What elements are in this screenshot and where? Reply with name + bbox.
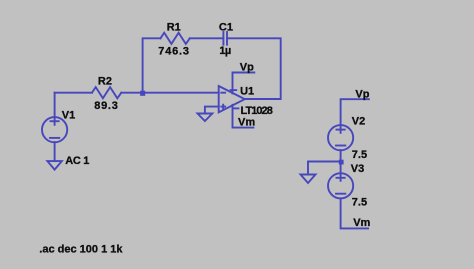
svg-text:1µ: 1µ bbox=[219, 45, 231, 57]
svg-text:Vp: Vp bbox=[240, 62, 254, 74]
svg-text:R1: R1 bbox=[167, 22, 181, 34]
svg-text:AC 1: AC 1 bbox=[65, 155, 89, 167]
svg-text:V2: V2 bbox=[352, 116, 365, 128]
svg-text:R2: R2 bbox=[98, 76, 112, 88]
svg-text:7.5: 7.5 bbox=[352, 149, 367, 161]
svg-text:V1: V1 bbox=[62, 110, 75, 122]
svg-text:Vp: Vp bbox=[355, 89, 369, 101]
svg-text:89.3: 89.3 bbox=[94, 100, 118, 112]
svg-text:V3: V3 bbox=[351, 163, 364, 175]
svg-text:.ac dec 100 1 1k: .ac dec 100 1 1k bbox=[39, 244, 123, 256]
svg-text:C1: C1 bbox=[219, 22, 233, 34]
svg-text:U1: U1 bbox=[240, 86, 254, 98]
svg-text:7.5: 7.5 bbox=[352, 197, 367, 209]
svg-text:Vm: Vm bbox=[238, 116, 255, 128]
svg-text:746.3: 746.3 bbox=[158, 45, 190, 57]
svg-text:Vm: Vm bbox=[353, 217, 370, 229]
svg-text:LT1028: LT1028 bbox=[241, 105, 273, 117]
